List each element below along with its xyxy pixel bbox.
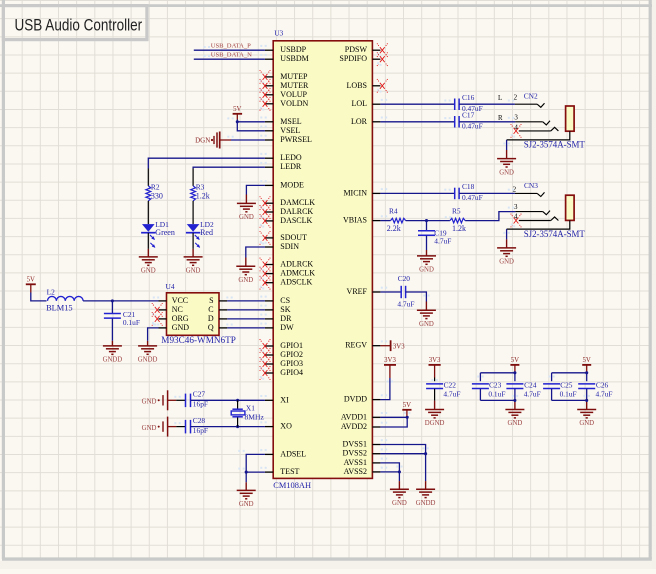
svg-text:DVSS2: DVSS2: [343, 449, 367, 458]
svg-text:R: R: [498, 115, 503, 122]
svg-text:Red: Red: [200, 228, 213, 237]
svg-text:0.47uF: 0.47uF: [462, 121, 483, 130]
svg-text:LOL: LOL: [351, 99, 367, 108]
svg-text:S: S: [209, 296, 213, 305]
svg-text:C24: C24: [524, 380, 537, 389]
svg-text:USB_DATA_N: USB_DATA_N: [211, 51, 252, 58]
svg-text:ADSEL: ADSEL: [280, 449, 306, 458]
svg-text:PWRSEL: PWRSEL: [280, 135, 312, 144]
svg-text:AVDD1: AVDD1: [341, 412, 367, 421]
svg-text:AVDD2: AVDD2: [341, 422, 367, 431]
svg-text:LOR: LOR: [351, 117, 368, 126]
svg-text:4.7uF: 4.7uF: [443, 389, 460, 398]
svg-text:C20: C20: [398, 274, 411, 283]
svg-text:XO: XO: [280, 422, 292, 431]
svg-text:VOLDN: VOLDN: [280, 99, 308, 108]
svg-text:16pF: 16pF: [193, 400, 208, 409]
svg-text:330: 330: [151, 191, 163, 200]
svg-text:LEDR: LEDR: [280, 162, 302, 171]
svg-text:CN3: CN3: [524, 181, 538, 190]
svg-text:BLM15: BLM15: [46, 304, 73, 313]
svg-text:VCC: VCC: [172, 296, 188, 305]
svg-text:2.2k: 2.2k: [387, 224, 401, 233]
svg-text:VREF: VREF: [347, 287, 368, 296]
svg-text:REGV: REGV: [345, 341, 367, 350]
svg-text:AVSS2: AVSS2: [344, 467, 367, 476]
svg-text:DR: DR: [280, 314, 292, 323]
svg-text:GNDD: GNDD: [103, 357, 123, 364]
svg-text:3V3: 3V3: [393, 343, 405, 350]
svg-text:PDSW: PDSW: [345, 45, 368, 54]
svg-text:GPIO4: GPIO4: [280, 368, 303, 377]
svg-text:3V3: 3V3: [429, 357, 441, 364]
svg-text:GPIO1: GPIO1: [280, 341, 303, 350]
svg-text:M93C46-WMN6TP: M93C46-WMN6TP: [161, 335, 236, 345]
svg-text:C16: C16: [462, 93, 475, 102]
svg-text:GND: GND: [508, 420, 523, 427]
svg-text:3V3: 3V3: [384, 357, 396, 364]
svg-text:GND: GND: [172, 323, 190, 332]
svg-text:4.7uF: 4.7uF: [596, 389, 613, 398]
svg-text:GND: GND: [419, 267, 434, 274]
svg-text:DGN: DGN: [195, 137, 210, 145]
svg-text:C26: C26: [596, 380, 609, 389]
svg-text:TEST: TEST: [280, 467, 299, 476]
svg-text:CM108AH: CM108AH: [273, 481, 311, 490]
svg-text:USBDP: USBDP: [280, 45, 306, 54]
svg-text:D: D: [208, 314, 214, 323]
svg-text:MSEL: MSEL: [280, 117, 301, 126]
svg-text:R4: R4: [389, 207, 398, 216]
svg-text:GND: GND: [392, 500, 407, 507]
svg-text:MICIN: MICIN: [343, 188, 367, 197]
svg-text:USBDM: USBDM: [280, 54, 308, 63]
svg-text:C23: C23: [489, 380, 502, 389]
svg-text:DALRCK: DALRCK: [280, 207, 313, 216]
svg-text:GND: GND: [238, 277, 253, 284]
svg-text:GPIO2: GPIO2: [280, 350, 303, 359]
svg-text:3: 3: [514, 114, 518, 122]
svg-text:5V: 5V: [583, 357, 591, 364]
svg-text:L: L: [498, 95, 502, 102]
svg-text:SDOUT: SDOUT: [280, 233, 307, 242]
svg-text:C17: C17: [462, 111, 475, 120]
svg-text:LEDO: LEDO: [280, 153, 302, 162]
svg-text:DGND: DGND: [425, 420, 445, 427]
svg-text:R2: R2: [151, 182, 160, 191]
svg-text:4.7uF: 4.7uF: [434, 236, 451, 245]
svg-text:SDIN: SDIN: [280, 242, 299, 251]
svg-text:ADLRCK: ADLRCK: [280, 260, 313, 269]
svg-text:GND: GND: [579, 420, 594, 427]
svg-text:5V: 5V: [511, 357, 519, 364]
svg-text:4.7uF: 4.7uF: [524, 389, 541, 398]
svg-text:4.7uF: 4.7uF: [397, 299, 414, 308]
svg-text:1.2k: 1.2k: [196, 191, 210, 200]
svg-text:SK: SK: [280, 305, 290, 314]
svg-text:GNDD: GNDD: [138, 357, 158, 364]
svg-text:C28: C28: [193, 416, 206, 425]
svg-text:C27: C27: [193, 389, 206, 398]
svg-text:GND: GND: [141, 268, 156, 275]
svg-text:Q: Q: [208, 323, 214, 332]
svg-text:NC: NC: [172, 305, 183, 314]
svg-text:CN2: CN2: [524, 92, 538, 101]
svg-text:MODE: MODE: [280, 180, 304, 189]
svg-text:5V: 5V: [403, 402, 411, 409]
svg-text:8MHz: 8MHz: [245, 413, 265, 422]
svg-text:L2: L2: [47, 287, 56, 296]
svg-text:USB Audio Controller: USB Audio Controller: [15, 16, 143, 35]
svg-text:GND: GND: [419, 321, 434, 328]
svg-text:VBIAS: VBIAS: [343, 216, 367, 225]
svg-text:16pF: 16pF: [193, 426, 208, 435]
svg-text:GND: GND: [239, 214, 254, 221]
svg-text:X1: X1: [246, 403, 255, 412]
svg-text:DASCLK: DASCLK: [280, 216, 312, 225]
svg-text:GPIO3: GPIO3: [280, 359, 303, 368]
svg-text:USB_DATA_P: USB_DATA_P: [211, 42, 251, 49]
svg-text:Green: Green: [155, 228, 175, 237]
svg-text:C: C: [208, 305, 213, 314]
svg-text:5V: 5V: [27, 277, 35, 284]
svg-text:SPDIFO: SPDIFO: [339, 54, 367, 63]
svg-text:GND: GND: [239, 501, 254, 508]
svg-text:DW: DW: [280, 323, 294, 332]
svg-text:C18: C18: [462, 182, 475, 191]
svg-text:GND: GND: [142, 425, 157, 432]
svg-text:3: 3: [514, 203, 518, 211]
svg-text:SJ2-3574A-SMT: SJ2-3574A-SMT: [524, 140, 586, 150]
svg-text:VSEL: VSEL: [280, 126, 300, 135]
svg-text:AVSS1: AVSS1: [344, 458, 367, 467]
svg-text:LOBS: LOBS: [347, 81, 367, 90]
svg-text:ORG: ORG: [172, 314, 189, 323]
svg-text:GND: GND: [142, 399, 157, 406]
svg-text:R5: R5: [452, 207, 461, 216]
svg-text:MUTEP: MUTEP: [280, 72, 308, 81]
svg-text:GND: GND: [186, 268, 201, 275]
svg-text:R3: R3: [196, 182, 205, 191]
svg-text:U3: U3: [274, 29, 283, 38]
svg-text:DVSS1: DVSS1: [343, 440, 367, 449]
svg-text:ADMCLK: ADMCLK: [280, 269, 315, 278]
svg-text:0.47uF: 0.47uF: [462, 193, 483, 202]
svg-text:0.1uF: 0.1uF: [560, 389, 577, 398]
svg-text:C25: C25: [560, 380, 573, 389]
svg-text:XI: XI: [280, 395, 289, 404]
svg-text:1.2k: 1.2k: [452, 224, 466, 233]
svg-text:MUTER: MUTER: [280, 81, 309, 90]
svg-text:5V: 5V: [233, 106, 241, 113]
svg-text:ADSCLK: ADSCLK: [280, 278, 312, 287]
svg-text:SJ2-3574A-SMT: SJ2-3574A-SMT: [524, 229, 586, 239]
svg-text:0.1uF: 0.1uF: [123, 318, 140, 327]
svg-text:DVDD: DVDD: [344, 395, 367, 404]
svg-text:GND: GND: [499, 169, 514, 176]
svg-text:GND: GND: [499, 259, 514, 266]
svg-text:C22: C22: [444, 380, 457, 389]
svg-text:GNDD: GNDD: [416, 500, 436, 507]
svg-text:DAMCLK: DAMCLK: [280, 198, 315, 207]
svg-text:VOLUP: VOLUP: [280, 90, 307, 99]
svg-text:U4: U4: [166, 282, 175, 291]
svg-text:CS: CS: [280, 296, 290, 305]
svg-text:0.1uF: 0.1uF: [488, 389, 505, 398]
